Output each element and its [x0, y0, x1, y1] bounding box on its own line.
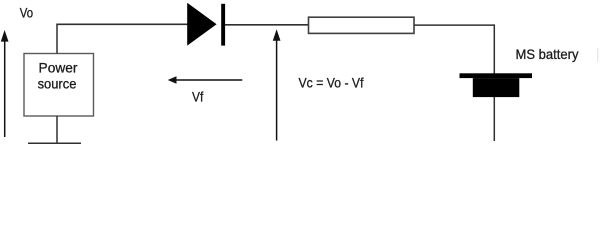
- arrow Vc (capacitor/output node voltage, pointing up): [273, 29, 281, 140]
- svg-text:source: source: [38, 76, 77, 92]
- arrow Vo output-voltage indicator: [1, 30, 9, 137]
- battery BT1 (MS battery): [460, 73, 533, 97]
- ground: [28, 142, 81, 144]
- wire below battery: [493, 97, 495, 141]
- resistor R1: [309, 17, 415, 33]
- power source PS1: [24, 54, 94, 117]
- wire top bus left segment: [56, 23, 187, 25]
- wire power source bottom riser: [56, 116, 58, 143]
- wire diode to resistor: [225, 24, 309, 26]
- svg-text:Vf: Vf: [192, 89, 203, 105]
- wire power source top riser: [56, 24, 58, 53]
- diode D1: [187, 3, 225, 46]
- arrow Vf (forward voltage, pointing left): [168, 76, 243, 84]
- svg-text:Power: Power: [39, 60, 78, 76]
- wire right drop to battery: [493, 24, 495, 73]
- svg-text:Vc = Vo - Vf: Vc = Vo - Vf: [299, 74, 364, 90]
- svg-text:MS battery: MS battery: [516, 46, 579, 62]
- wire faint stub at right edge: [597, 48, 599, 62]
- wire resistor to corner: [414, 24, 494, 26]
- svg-text:Vo: Vo: [20, 5, 33, 21]
